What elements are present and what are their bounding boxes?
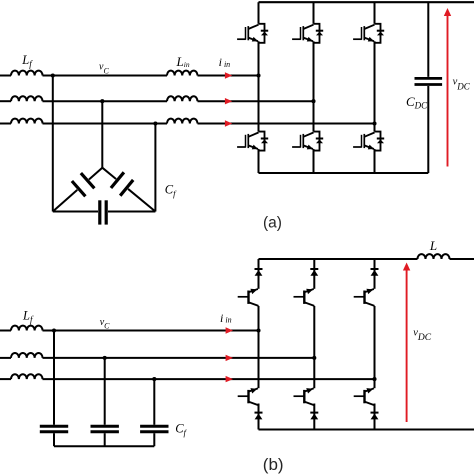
svg-text:Lf: Lf [21, 53, 33, 69]
svg-text:Lf: Lf [22, 309, 34, 325]
svg-text:CDC: CDC [406, 94, 428, 111]
svg-text:Cf: Cf [165, 183, 177, 199]
svg-text:vDC: vDC [413, 328, 432, 343]
svg-text:L: L [429, 238, 437, 253]
svg-text:i in: i in [220, 311, 232, 325]
svg-text:vC: vC [99, 61, 109, 75]
svg-text:Lin: Lin [176, 54, 190, 69]
svg-text:i in: i in [219, 55, 231, 69]
svg-text:vDC: vDC [453, 77, 471, 92]
svg-text:(a): (a) [263, 215, 282, 232]
svg-text:(b): (b) [263, 455, 284, 474]
svg-text:vC: vC [100, 317, 110, 330]
svg-text:Cf: Cf [175, 422, 187, 438]
